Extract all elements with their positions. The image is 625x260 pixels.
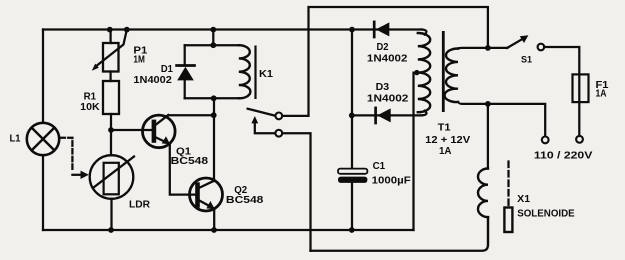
solenoid X1 coil [478,169,488,218]
wire lower contact down [282,133,310,251]
wire L1 bottom lead [42,155,44,230]
diode D3 [376,108,391,123]
solenoid X1 plunger dashes [507,162,509,206]
svg-text:D2: D2 [377,42,389,53]
wire P1-R1 [109,72,111,82]
wire D2 branch vertical [351,30,353,116]
wire top rail [43,28,422,30]
diode D2 [374,22,389,37]
svg-text:1A: 1A [596,89,607,100]
wire primary top [458,47,488,50]
capacitor C1 [338,115,367,230]
svg-text:1N4002: 1N4002 [367,53,408,64]
wire X1 feed [487,104,489,169]
node dot X1 branch [485,101,491,107]
wire S1 to fuse [544,47,579,74]
switch S1 [488,35,544,50]
node dot Q2 emitter-ground [211,227,217,233]
transformer T1 secondary [418,33,430,112]
svg-text:110 / 220V: 110 / 220V [534,151,593,162]
lamp L1 [27,123,59,155]
svg-text:BC548: BC548 [171,156,209,167]
node dot LDR-ground [108,227,114,233]
svg-text:D3: D3 [376,82,390,93]
wire Q2 emitter lead [213,209,215,230]
svg-text:1A: 1A [439,146,452,157]
relay contact upper terminal [275,113,282,120]
wire L1 top lead [42,30,44,123]
diode D1 [177,45,195,98]
relay K1 box top [185,44,239,46]
relay K1 box bottom [185,97,239,99]
node dot S1 [485,45,491,51]
svg-text:X1: X1 [517,194,530,205]
transformer T1 core [442,31,445,112]
svg-text:L1: L1 [10,134,21,145]
relay actuation arrow [251,116,275,133]
potentiometer P1 [92,30,127,72]
wire upper contact to mains [282,7,488,116]
svg-text:SOLENOIDE: SOLENOIDE [517,208,575,219]
relay contact lower terminal [275,130,282,137]
mains terminal left [542,137,549,144]
mains terminal right [576,136,583,143]
wire ground rail [43,229,414,231]
svg-text:1M: 1M [133,55,145,66]
node dot K1 box top [210,42,216,48]
wire LDR top lead [110,130,112,155]
node dot center tap [414,70,419,75]
fuse F1 [573,74,589,135]
wire bottom mains rail [311,217,489,251]
transformer T1 primary [445,49,458,103]
svg-text:1000µF: 1000µF [372,176,411,187]
node dot collectors [211,112,217,118]
wire secondary bottom exit [422,111,427,116]
node dot P1 top [107,27,113,33]
svg-text:S1: S1 [521,54,533,65]
svg-text:K1: K1 [259,69,273,80]
transistor Q2 [190,178,223,211]
wire center tap [414,73,418,230]
wire D2 to coil + entry curve [422,30,427,35]
svg-text:1N4002: 1N4002 [133,75,172,86]
LDR [90,155,134,199]
solenoid X1 plunger [504,208,512,233]
light arrow dashes [61,138,89,179]
svg-text:12 + 12V: 12 + 12V [425,135,470,146]
wire Q1 collector [168,114,213,116]
resistor R1 [103,81,119,114]
node dot R1-LDR-Q1 [108,127,114,133]
relay K1 coil [239,45,251,98]
relay contact lever [248,109,276,116]
node dot relay box bottom [211,95,217,101]
node dot K1 top rail [210,27,216,33]
svg-text:D1: D1 [161,64,173,75]
wire LDR bottom lead [110,199,112,230]
svg-text:1N4002: 1N4002 [367,94,409,105]
node dot P1 wiper [124,27,130,33]
relay K1 armature bar [254,46,256,100]
svg-text:C1: C1 [373,161,386,172]
wire K1 feed [212,30,214,46]
svg-text:R1: R1 [84,91,97,102]
svg-text:T1: T1 [438,123,451,134]
transistor Q1 [143,115,176,148]
wire primary bottom [458,102,545,136]
wire Q2 collector vertical [213,98,215,181]
svg-text:BC548: BC548 [226,195,264,206]
svg-text:10K: 10K [80,102,100,113]
wire base lead Q1 [111,129,152,131]
wire D3 line [352,114,422,116]
wire X1 bottom [487,217,489,245]
wire R1 bottom lead [110,114,112,130]
node dot D3 branch [349,113,355,119]
svg-text:LDR: LDR [129,200,151,211]
node dot C1-ground [349,227,355,233]
node dot D2 branch [349,27,355,33]
wire Q1 emitter to Q2 base [170,144,196,195]
